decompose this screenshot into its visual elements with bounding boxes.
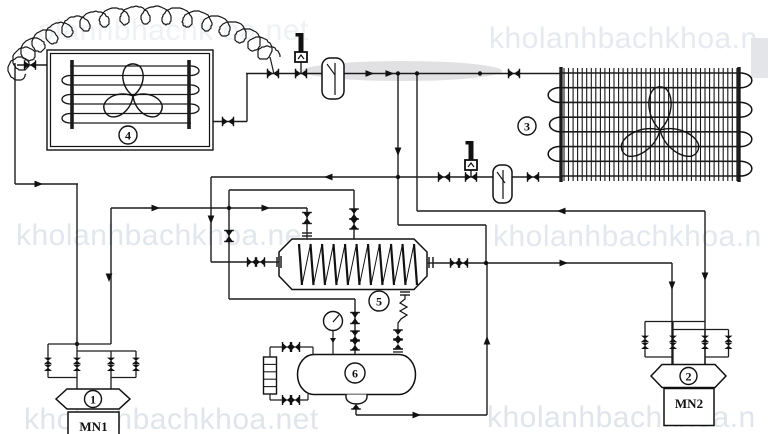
gray blur on discharge pipe [302,61,502,81]
valve before evap3 top [509,70,515,78]
valve above HX5 top-left nozzle [303,213,311,219]
label 6 [345,363,365,383]
svg-text:MN2: MN2 [675,396,703,411]
compressor MN2 manifold [645,321,705,323]
valve on vessel6 feed [351,313,359,319]
level gauge top line [269,347,271,357]
wire: unit4 left suction line to MN1 [17,64,72,66]
evap3 fan [649,87,671,130]
wire: unit4 right line up to discharge header [189,121,247,123]
compressor MN1 body [56,389,130,409]
filter drier on liquid line [493,165,512,203]
HX5 internal coil [299,244,302,285]
wire: HX5 right line to MN2 [435,262,672,264]
level gauge bottom line [269,394,271,400]
svg-text:2: 2 [686,370,692,384]
wire: L3 suction from HX5 to MN1 [111,207,307,209]
double valve above HX5 top-right [350,209,358,214]
oil separator / muffler on discharge [322,58,344,99]
double valve HX5 left feed [248,258,253,266]
condenser 4 tube sheets [70,60,74,129]
svg-text:1: 1 [90,393,96,407]
valve before evap3 bottom [528,173,534,181]
HX5 left nozzle [275,261,279,263]
wire: vessel6 bottom out [355,408,357,415]
HX5 bottom-right nozzle + expansion zigzag [400,291,410,293]
valve on discharge header [268,70,274,78]
svg-text:3: 3 [524,120,530,134]
double valve vessel6 feed [351,331,359,336]
receiver vessel 6 [298,355,416,395]
discharge helix coil [8,6,280,80]
double valve on float line [394,330,402,335]
valve on unit4 right line [223,118,229,126]
valve on unit4 left line [25,61,31,69]
HX5 top-left nozzle [302,232,312,234]
flange float line [393,348,403,350]
wire: HX5 left feed line [211,261,275,263]
MN1 box [68,412,119,434]
label 5 [369,291,389,311]
condenser 4 fan [123,64,143,96]
valve on liquid line [439,173,445,181]
heat exchanger 5 shell [279,239,427,290]
HX5 right nozzle [427,262,435,264]
level gauge column [264,357,277,394]
svg-text:5: 5 [376,295,382,309]
condenser unit 4 box [47,50,213,150]
wire: MN2 right vertical [704,322,706,365]
valve under vessel6 [352,399,360,404]
stop valve 1 (discharge) [299,33,304,52]
valve on L2 vertical [225,231,233,237]
svg-text:4: 4 [125,129,131,143]
double valve HX5 right out [451,259,456,267]
evaporator 3 finned coil [563,68,565,181]
label 4 [119,126,137,144]
stop valve 2 (liquid) [469,141,474,160]
evap3 tube sheets [559,67,562,182]
label 3 [518,117,536,135]
pressure gauge [324,312,343,331]
wire: branch B down and across to MN2 [416,74,418,212]
compressor MN2 body [651,365,726,388]
wire: L2 line from HX5 top right [229,189,354,191]
MN2 box [664,389,714,426]
condenser 4 coil [70,65,191,67]
wire: branch A down to liquid line [397,74,399,226]
compressor MN1 manifold [48,343,111,345]
wire: top discharge header to evaporator 3 [246,73,561,75]
svg-text:6: 6 [352,367,358,381]
vessel6 bottom dome [346,395,367,405]
svg-text:MN1: MN1 [79,419,107,434]
wire: second pipe (liquid line) to evap 3 [211,176,561,178]
